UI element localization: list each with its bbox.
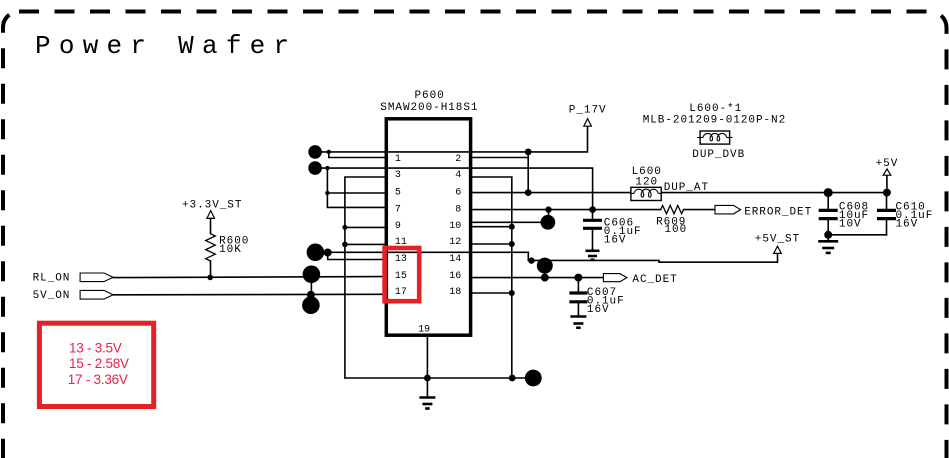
capacitor C606 0.1uF 16V (583, 210, 642, 250)
svg-text:DUP_AT: DUP_AT (664, 182, 709, 194)
svg-text:12: 12 (449, 237, 461, 248)
ground under C607 (570, 315, 586, 328)
wire pin1 lower entry (329, 152, 387, 158)
svg-text:19: 19 (418, 324, 430, 335)
svg-text:RL_ON: RL_ON (33, 272, 71, 284)
svg-text:5: 5 (395, 187, 401, 198)
svg-text:6: 6 (455, 187, 461, 198)
ground under pin 19 (419, 378, 435, 409)
svg-text:P600: P600 (415, 90, 445, 102)
wire link 13-14 net to AC_DET net (537, 258, 553, 278)
svg-text:+3.3V_ST: +3.3V_ST (182, 200, 242, 212)
wire +5V rail pin6 to C608 C610 (471, 175, 891, 197)
wire RL_ON to pin 15 (113, 266, 386, 315)
svg-text:8: 8 (455, 204, 461, 215)
svg-text:16V: 16V (587, 304, 610, 316)
wire net P_17V pins 1-2 through line (308, 126, 587, 159)
power flag +5V_ST (755, 233, 800, 253)
svg-text:9: 9 (395, 221, 401, 232)
wire net pins 3-4 through line to C606 junction (308, 161, 596, 213)
net flag RL_ON (33, 272, 114, 284)
resistor R600 10K (206, 218, 250, 277)
svg-text:100: 100 (665, 224, 688, 236)
red highlight box around pins 13,15,17 (385, 248, 420, 301)
svg-text:2: 2 (455, 154, 461, 165)
wire pin13 lower entry (328, 252, 387, 259)
resistor R609 100 (656, 205, 687, 236)
wire ground rail under connector (345, 370, 542, 387)
net flag 5V_ON (33, 290, 114, 302)
wire right vertical to ground rail, pins 6,10,12,18 (471, 177, 515, 378)
svg-text:Power Wafer: Power Wafer (35, 31, 297, 61)
ground under C606 (586, 249, 600, 259)
capacitor C608 10uF 10V (819, 193, 869, 239)
wire pin10 branch junction (471, 210, 556, 230)
svg-text:120: 120 (635, 177, 658, 189)
wire net pins 13-14 through line to +5V_ST (307, 244, 778, 264)
svg-text:17 - 3.36V: 17 - 3.36V (68, 372, 128, 387)
svg-text:3: 3 (395, 170, 401, 181)
svg-text:13: 13 (395, 254, 407, 265)
svg-text:16V: 16V (896, 219, 919, 231)
svg-text:SMAW200-H18S1: SMAW200-H18S1 (380, 102, 478, 114)
red annotation box with measured voltages (39, 323, 153, 406)
svg-text:17: 17 (395, 287, 407, 298)
svg-text:18: 18 (449, 287, 461, 298)
svg-text:L600-*1: L600-*1 (689, 103, 742, 115)
ground under C608 (818, 235, 838, 253)
svg-text:P_17V: P_17V (569, 104, 607, 116)
svg-text:+5V_ST: +5V_ST (755, 233, 800, 245)
net flag AC_DET (603, 274, 677, 287)
svg-text:13 - 3.5V: 13 - 3.5V (69, 340, 122, 355)
power flag +5V (876, 158, 899, 175)
wire pin 19 stem (426, 335, 428, 378)
wire pin8 to R609 and ERROR_DET (471, 206, 715, 212)
capacitor C610 0.1uF 16V (828, 193, 933, 235)
net flag ERROR_DET (715, 205, 812, 218)
wire pin2 lower exit to DUP_AT rail (471, 152, 532, 196)
inductor L600-*1 DUP_DVB (643, 103, 786, 161)
inductor L600 DUP_AT (631, 166, 709, 201)
wire left vertical to ground rail, pins 5,9,11 entries (342, 177, 386, 378)
wire pin16 to AC_DET (471, 274, 604, 282)
svg-text:16V: 16V (604, 235, 627, 247)
svg-text:10V: 10V (839, 219, 862, 231)
svg-text:10: 10 (449, 221, 461, 232)
svg-text:15 - 2.58V: 15 - 2.58V (69, 356, 129, 371)
svg-text:5V_ON: 5V_ON (33, 290, 71, 302)
power flag P_17V (569, 104, 607, 126)
power flag +3.3V_ST (182, 200, 242, 219)
capacitor C607 0.1uF 16V (569, 278, 624, 317)
svg-text:AC_DET: AC_DET (632, 274, 677, 286)
wire left chain to pins 5 and 7 (325, 168, 386, 207)
svg-text:10K: 10K (219, 244, 242, 256)
svg-text:MLB-201209-0120P-N2: MLB-201209-0120P-N2 (643, 115, 786, 127)
connector P600 body (386, 119, 470, 335)
svg-text:DUP_DVB: DUP_DVB (692, 149, 745, 161)
wire 5V_ON to pin 17 (113, 293, 386, 296)
svg-text:16: 16 (449, 271, 461, 282)
svg-text:1: 1 (395, 154, 401, 165)
svg-text:7: 7 (395, 204, 401, 215)
svg-text:4: 4 (455, 170, 461, 181)
svg-text:14: 14 (449, 254, 461, 265)
svg-text:15: 15 (395, 271, 407, 282)
svg-text:ERROR_DET: ERROR_DET (744, 207, 812, 219)
